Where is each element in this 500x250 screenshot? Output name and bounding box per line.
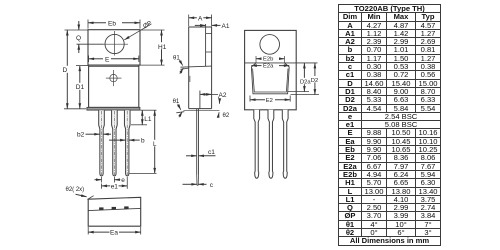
svg-text:E2a: E2a [263,64,274,70]
svg-text:θ1: θ1 [173,99,180,105]
svg-text:b2: b2 [77,132,85,139]
dimension D1 (body height) [75,66,88,109]
svg-text:L: L [153,141,157,148]
mounting hole (back view) [260,35,280,55]
front view tab outline [88,30,140,65]
front view body outline [87,65,140,110]
dimension c (lead tip thickness) [183,182,214,189]
angle theta2 (side view, bottom right) [218,97,230,119]
svg-text:L1: L1 [144,116,152,123]
body ledge line [180,66,211,67]
dimension b2 (wide lead width) [77,132,111,139]
lead 1 (front view) [99,110,105,176]
dimension E2 [250,96,290,105]
seating plane line [184,109,220,111]
angle theta1 (upper) [173,56,189,74]
svg-text:Q: Q [76,35,81,42]
svg-text:Ea: Ea [110,230,118,237]
dimension e (lead pitch) [95,177,126,184]
dimension Ea (bottom view width) [88,227,141,237]
dimension D (overall height) [62,30,87,109]
mounting hole [104,31,129,56]
dimension E2a [251,64,289,70]
svg-text:A1: A1 [222,23,230,30]
dimension D2a [288,63,311,92]
dimension A2 [200,91,227,109]
svg-text:b: b [141,138,145,145]
bottom view outline [88,197,141,226]
bottom view step line [88,208,141,210]
svg-text:θ1: θ1 [173,56,180,62]
svg-text:c: c [210,182,214,189]
svg-text:E2: E2 [266,98,273,104]
svg-text:A: A [198,16,203,23]
dimension b (narrow lead width) [109,138,145,145]
lead (side view) [197,109,199,186]
dimension e1 (outer lead pitch) [102,177,128,191]
svg-text:e1: e1 [111,183,119,190]
svg-text:Eb: Eb [108,20,116,27]
svg-text:θ2( 2x): θ2( 2x) [66,187,85,193]
dimension table TO220AB [338,4,441,246]
side view outline: top/right/left/tab [189,24,212,109]
svg-text:H1: H1 [158,44,167,51]
ejector mark [106,70,122,86]
gate mark [189,76,191,82]
dimension L1 (lead shoulder length) [131,110,157,125]
svg-text:ØP: ØP [142,20,153,31]
dimension c1 (lead thickness) [186,149,216,156]
svg-text:e: e [121,177,125,184]
lead 2 (front view) [112,110,118,176]
dimension Q (tab top to hole center) [65,21,104,53]
svg-text:θ2: θ2 [223,113,230,119]
label OP (hole diameter) with leader [124,20,153,40]
svg-text:E2b: E2b [263,57,273,63]
dimension E2b [256,56,285,63]
lead 3 (front view) [124,110,130,176]
angle theta1 (lower) [173,99,185,117]
dimension Eb (tab width) [88,20,140,29]
svg-text:D: D [63,67,68,74]
label theta2 (2x) with leader [66,187,94,200]
svg-text:c1: c1 [208,149,215,156]
svg-text:D1: D1 [76,84,85,91]
side view bottom edge [189,108,212,110]
svg-text:E: E [105,56,110,63]
lead sections in bottom view [99,207,103,210]
tab lower edge line (back view) [245,62,318,64]
svg-text:D2a: D2a [300,80,311,86]
lead 1 (back view) [254,110,260,178]
lead 3 (back view) [282,110,288,178]
lead 2 (back view) [268,110,274,178]
dimension A (overall thickness) [189,15,212,27]
dimension L (lead length) [130,110,158,173]
svg-text:D2: D2 [311,78,318,84]
hole edges seen in side view [206,33,212,35]
heatsink pad (back view) [251,63,289,94]
back view outline [245,30,297,109]
dimension E (body width) [89,56,139,64]
svg-text:A2: A2 [219,92,227,99]
dimension A1 (tab thickness) [195,23,230,30]
dimension H1 (tab height above body) [140,30,167,65]
dimension D2 [291,63,320,95]
